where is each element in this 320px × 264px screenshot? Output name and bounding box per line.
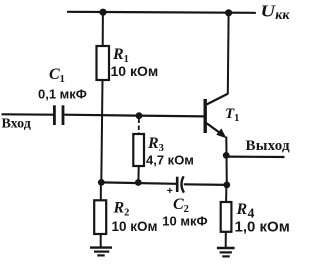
wire C2 to emitter node segment bbox=[184, 183, 227, 186]
wire output lead bbox=[227, 156, 285, 159]
resistor R4 bbox=[221, 202, 232, 232]
node divider bottom left bbox=[98, 179, 105, 186]
wire bottom left segment to C2 bbox=[101, 182, 177, 183]
ground below R4 bbox=[217, 248, 235, 256]
resistor R3 bbox=[133, 134, 144, 166]
node R3 bottom junction bbox=[135, 179, 142, 186]
wire input lead bbox=[2, 113, 54, 116]
svg-text:U: U bbox=[261, 2, 277, 21]
wire R2 top lead bbox=[100, 182, 102, 200]
svg-text:4,7 кОм: 4,7 кОм bbox=[146, 153, 194, 168]
svg-text:1,0 кОм: 1,0 кОм bbox=[235, 219, 290, 236]
svg-text:0,1 мкФ: 0,1 мкФ bbox=[38, 86, 87, 101]
wire R3 top lead (broken/dashed in scan) bbox=[138, 119, 140, 135]
svg-text:T1: T1 bbox=[225, 106, 239, 124]
capacitor C2 polarized bbox=[177, 176, 184, 192]
T1 base bar bbox=[203, 99, 206, 133]
svg-text:R2: R2 bbox=[113, 200, 130, 219]
node output junction bbox=[223, 152, 230, 159]
node B junction top of collector bbox=[225, 9, 232, 16]
svg-text:R3: R3 bbox=[147, 135, 164, 154]
svg-text:кк: кк bbox=[275, 8, 290, 23]
svg-text:10 мкФ: 10 мкФ bbox=[162, 214, 207, 229]
transistor T1 bbox=[205, 94, 228, 139]
svg-text:C1: C1 bbox=[49, 66, 65, 85]
T1 emitter diagonal bbox=[207, 123, 225, 136]
capacitor C1 bbox=[54, 105, 63, 125]
svg-text:C2: C2 bbox=[173, 196, 189, 215]
svg-text:10 кОм: 10 кОм bbox=[112, 219, 158, 234]
resistor R1 bbox=[97, 46, 110, 80]
svg-text:Вход: Вход bbox=[2, 117, 31, 132]
node C2 right junction bbox=[223, 182, 230, 189]
wire collector vertical bbox=[227, 13, 230, 94]
wire R3 bottom lead bbox=[137, 166, 139, 182]
node base to R3 junction bbox=[136, 112, 143, 119]
svg-text:Выход: Выход bbox=[246, 138, 291, 154]
ground below R2 bbox=[90, 248, 112, 256]
T1 collector diagonal bbox=[207, 94, 229, 105]
wire R4 bottom lead bbox=[225, 232, 227, 248]
resistor R2 bbox=[94, 200, 106, 234]
wire R4 top lead bbox=[225, 185, 227, 203]
node A junction top of R1 bbox=[99, 9, 106, 16]
wire top supply rail bbox=[67, 12, 256, 13]
wire R2 bottom lead bbox=[100, 234, 102, 247]
T1 emitter arrowhead bbox=[216, 128, 226, 138]
wire base lead from C1 to transistor base bbox=[64, 115, 203, 117]
wire R1 top lead bbox=[102, 12, 104, 46]
supply label Ukk bbox=[261, 2, 291, 23]
wire R1 bottom lead through base node down to divider node bbox=[101, 80, 102, 182]
wire emitter vertical down to bottom node bbox=[225, 137, 228, 185]
svg-text:10 кОм: 10 кОм bbox=[111, 63, 159, 79]
